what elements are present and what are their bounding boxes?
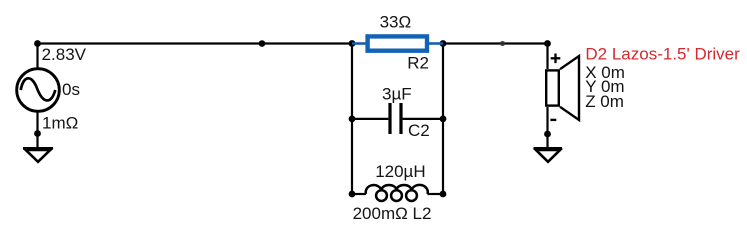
svg-text:Z 0m: Z 0m <box>585 92 624 111</box>
svg-text:2.83V: 2.83V <box>42 45 87 64</box>
svg-text:C2: C2 <box>408 121 430 140</box>
resistor R2 <box>352 36 443 50</box>
node junction top-right <box>544 40 551 47</box>
wire left branch vertical <box>351 44 353 195</box>
node junction cap right <box>440 116 447 123</box>
ground right <box>534 148 563 162</box>
node junction cap left <box>349 116 356 123</box>
wire right branch vertical <box>442 44 444 195</box>
node junction inductor right <box>440 191 447 198</box>
speaker plus sign <box>551 54 561 64</box>
wire source bottom <box>36 112 38 149</box>
wire speaker top <box>546 44 548 70</box>
inductor L2 <box>352 185 443 201</box>
node junction above left ground <box>34 130 41 137</box>
wire source top <box>36 44 38 69</box>
node junction inductor left <box>349 191 356 198</box>
ground left <box>23 148 53 162</box>
svg-text:200mΩ L2: 200mΩ L2 <box>353 204 432 223</box>
svg-text:1mΩ: 1mΩ <box>42 113 78 132</box>
node junction mid-left wire <box>259 40 266 47</box>
speaker D2 body <box>546 70 559 105</box>
node junction top-left <box>34 40 41 47</box>
speaker minus sign <box>550 119 556 121</box>
speaker D2 cone <box>560 56 579 120</box>
node junction resistor left <box>349 40 356 47</box>
capacitor C2 <box>352 103 443 134</box>
source V1 circle <box>17 69 60 112</box>
svg-text:120µH: 120µH <box>375 162 425 181</box>
source sine symbol <box>21 78 56 100</box>
node faint gray junction <box>500 41 505 46</box>
svg-text:R2: R2 <box>407 53 429 72</box>
wire top horizontal <box>38 42 548 44</box>
wire speaker bottom <box>546 107 548 148</box>
node junction above right ground <box>544 131 551 138</box>
svg-text:0s: 0s <box>62 80 80 99</box>
node junction resistor right <box>440 40 447 47</box>
svg-text:33Ω: 33Ω <box>380 13 412 32</box>
svg-text:D2 Lazos-1.5' Driver: D2 Lazos-1.5' Driver <box>585 45 740 64</box>
svg-text:3µF: 3µF <box>382 85 412 104</box>
